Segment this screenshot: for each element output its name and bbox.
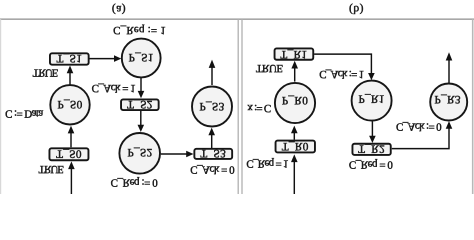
svg-text:C_Ack = 1: C_Ack = 1: [92, 82, 135, 94]
svg-text:C := Data: C := Data: [5, 107, 43, 119]
svg-text:P_R1: P_R1: [358, 93, 384, 105]
svg-text:C_Req := 1: C_Req := 1: [113, 24, 166, 36]
svg-text:P_S2: P_S2: [127, 146, 152, 158]
svg-text:T_R2: T_R2: [358, 142, 385, 154]
svg-text:P_S1: P_S1: [129, 51, 154, 63]
svg-text:C_Ack = 0: C_Ack = 0: [190, 163, 235, 175]
svg-text:(b): (b): [349, 3, 364, 15]
svg-text:C_Req = 1: C_Req = 1: [246, 157, 288, 169]
svg-text:C_Req = 0: C_Req = 0: [349, 159, 393, 171]
svg-text:T_S3: T_S3: [200, 147, 226, 159]
svg-text:TRUE: TRUE: [39, 163, 65, 175]
svg-text:T_S0: T_S0: [56, 148, 82, 160]
svg-text:x := C: x := C: [247, 102, 271, 114]
svg-text:(a): (a): [112, 3, 126, 15]
svg-text:P_S3: P_S3: [199, 100, 224, 112]
svg-text:P_R0: P_R0: [282, 94, 308, 106]
svg-text:T_R1: T_R1: [280, 48, 307, 60]
svg-text:P_R3: P_R3: [435, 93, 461, 105]
svg-text:TRUE: TRUE: [256, 62, 284, 74]
svg-text:T_S2: T_S2: [127, 98, 153, 110]
svg-text:T_S1: T_S1: [56, 52, 82, 64]
svg-text:C_Req := 0: C_Req := 0: [111, 176, 159, 188]
svg-text:TRUE: TRUE: [33, 67, 59, 79]
svg-text:P_S0: P_S0: [57, 98, 82, 110]
svg-text:C_Ack := 1: C_Ack := 1: [319, 68, 363, 80]
svg-text:T_R0: T_R0: [282, 140, 309, 152]
svg-text:C_Ack := 0: C_Ack := 0: [396, 121, 442, 133]
